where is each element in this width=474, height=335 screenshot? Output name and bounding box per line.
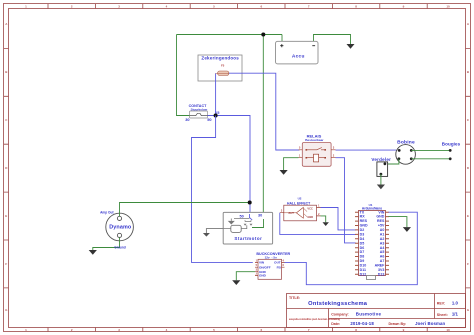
svg-text:AREF: AREF [375,264,386,268]
svg-text:D9: D9 [360,259,365,263]
svg-text:easyeda.com/editor-joeri-bosma: easyeda.com/editor-joeri-bosman-ontsteki… [289,318,341,321]
svg-text:D11: D11 [360,268,366,272]
wire relay coil left to ground [284,158,299,170]
svg-text:VIN: VIN [259,261,265,265]
svg-text:12v →5v: 12v →5v [265,255,278,259]
node contact 15 junction [214,114,218,118]
svg-text:1/1: 1/1 [452,312,459,317]
regulator BUCKCONVERTER [255,252,291,279]
ground arduino [403,227,411,232]
wire bobine to verdeler [385,159,399,164]
wire fuse left to contact 15 node [215,73,217,115]
wire 15 node to buckconverter VIN [192,116,253,263]
switch CONTACT [185,104,220,122]
svg-text:OUT: OUT [274,261,281,265]
ground buck [232,280,240,285]
coil Bobine [396,140,416,165]
svg-text:+5V: +5V [378,224,385,228]
svg-text:RX: RX [360,215,366,219]
svg-text:ON/OFF: ON/OFF [259,265,271,269]
svg-text:D3: D3 [360,233,365,237]
wire verdeler to ground [380,174,382,184]
wire accu plus pin [281,35,283,42]
wire rail down to startmotor 30 [262,35,264,220]
sensor U2 HALL-EFFECT [280,197,321,221]
svg-text:Bestuurbaar: Bestuurbaar [305,138,324,142]
svg-text:30: 30 [185,117,189,122]
wire rail down to contact 30 [177,35,190,116]
svg-text:RES: RES [360,219,368,223]
dynamo [100,211,133,241]
svg-text:Startmotor: Startmotor [234,236,262,241]
svg-text:F: F [5,262,7,266]
node rail junction [261,33,265,37]
wire bobine to bougie 1 [411,149,450,151]
relay RELAIS [299,134,336,167]
svg-text:GND: GND [376,215,384,219]
wire contact 50 to startmotor 50 [208,116,251,215]
svg-text:D6: D6 [360,246,365,250]
node startmotor 50 junction [248,201,252,205]
svg-text:3V3: 3V3 [378,268,384,272]
svg-text:Bougies: Bougies [442,141,461,146]
svg-text:Accu: Accu [292,54,305,60]
starter Startmotor [223,212,272,244]
fuse F5 [216,71,230,76]
mcu U1 Arduino Nano [355,203,389,280]
svg-text:A2: A2 [380,237,385,241]
svg-text:Sheet:: Sheet: [437,313,448,317]
svg-text:A3: A3 [380,241,385,245]
wire dynamo out to startmotor node [120,203,250,217]
svg-text:Ontstekingsschema: Ontstekingsschema [308,301,368,307]
wire hall vcc to arduino D2 [321,208,356,230]
svg-text:OUT: OUT [288,211,294,215]
svg-text:Dynamo: Dynamo [109,224,132,230]
svg-text:Date:: Date: [331,322,340,326]
svg-text:A0: A0 [380,228,385,232]
svg-text:A7: A7 [380,259,385,263]
fusebox Zekeringendoos [198,55,242,81]
ground accu [347,44,355,49]
svg-text:A6: A6 [380,255,385,259]
wire battery positive rail [177,34,283,36]
svg-text:10: 10 [446,5,450,9]
svg-text:F: F [467,262,469,266]
ground verdeler [377,185,385,190]
wire startmotor case ground [206,229,223,233]
svg-text:Busmotive: Busmotive [356,312,382,317]
svg-text:E: E [5,214,7,218]
svg-text:D5: D5 [360,241,365,245]
wire arduino gnd to ground [389,217,407,228]
svg-text:10: 10 [446,328,450,332]
svg-text:1.0: 1.0 [452,300,459,305]
svg-text:U2: U2 [298,197,302,201]
svg-text:Amp Out: Amp Out [100,211,114,215]
wire relay coil right to arduino D5 [336,158,356,243]
ground startmotor [203,233,210,237]
wire buck out to arduino vin [285,212,418,285]
svg-text:D10: D10 [360,264,367,268]
wire buck gnd to ground [236,272,255,281]
ground dynamo [89,250,97,255]
svg-text:Ground: Ground [114,246,126,250]
svg-text:REV:: REV: [437,301,445,305]
svg-text:D13: D13 [378,272,385,276]
svg-text:2019-04-18: 2019-04-18 [350,321,374,326]
svg-text:30: 30 [258,214,262,218]
svg-text:Joeri Bosman: Joeri Bosman [415,321,445,326]
svg-text:E: E [467,214,469,218]
node bougies terminals [449,149,452,160]
svg-text:D4: D4 [360,237,365,241]
ground relay [280,170,288,175]
svg-text:Zekeringendoos: Zekeringendoos [201,55,239,60]
wire hall out to arduino D3 [280,213,356,235]
svg-text:Company:: Company: [331,312,349,316]
svg-text:GND: GND [259,274,267,278]
ground hall [323,222,329,226]
wire fuse right to relay [229,73,300,150]
svg-text:50: 50 [207,117,211,122]
svg-text:GND: GND [307,215,313,219]
wire dynamo ground [93,238,120,251]
battery Accu [276,41,319,64]
svg-text:D8: D8 [360,255,365,259]
wire hall gnd to ground [321,216,326,222]
svg-text:A5: A5 [380,250,385,254]
wire bobine to bougie 2 [411,158,450,160]
svg-text:Drawn By:: Drawn By: [389,322,407,326]
svg-text:D12: D12 [360,272,367,276]
svg-text:D7: D7 [360,250,365,254]
svg-text:TITLE:: TITLE: [289,296,300,300]
wire accu minus to ground [314,35,351,45]
title block [287,294,466,328]
distributor Verdeler [371,157,391,176]
svg-text:VCC: VCC [307,207,313,211]
svg-text:D2: D2 [360,228,365,232]
svg-text:RES: RES [377,219,385,223]
svg-text:F5: F5 [221,64,225,68]
svg-text:A1: A1 [380,233,385,237]
svg-text:50: 50 [239,214,243,218]
svg-text:GND: GND [360,224,368,228]
svg-text:A4: A4 [380,246,385,250]
wire relay contact to bobine [336,149,397,151]
